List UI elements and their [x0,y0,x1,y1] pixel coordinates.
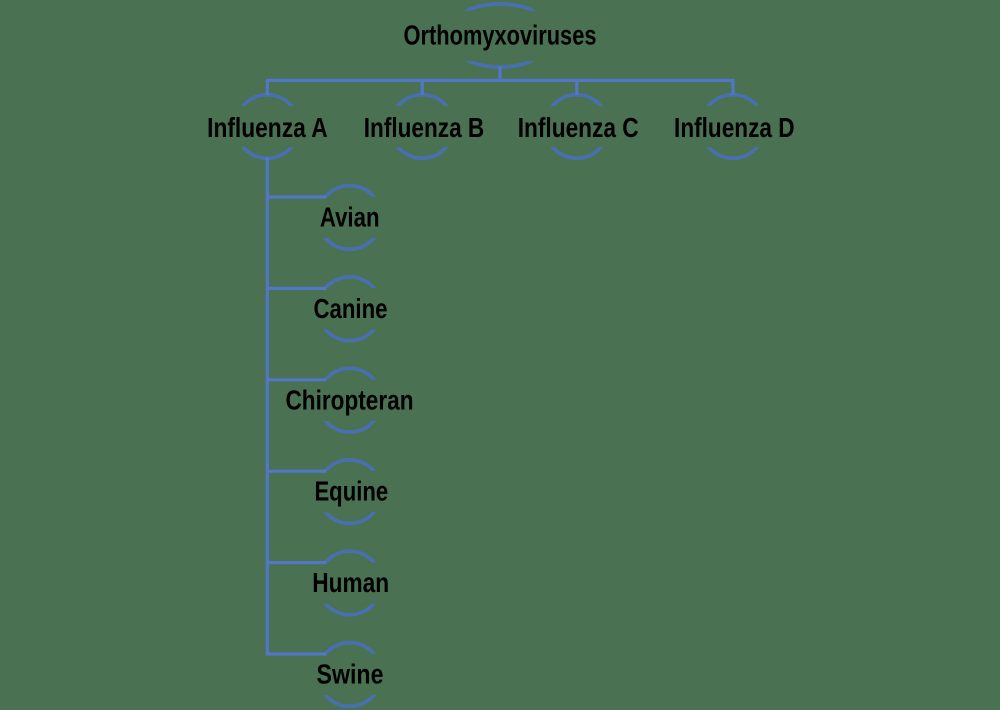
svg-text:Influenza B: Influenza B [364,112,485,143]
text band Swine [295,654,405,695]
wire stub from Orthomyxoviruses to rail [498,66,501,82]
node Influenza A circle [235,95,299,159]
text band Orthomyxoviruses [425,11,575,61]
node Orthomyxoviruses ellipse [447,4,553,67]
text band Influenza C [506,106,649,147]
node Influenza C circle [545,95,609,159]
node Influenza B circle [390,95,454,159]
node Canine circle [318,277,382,341]
wire branch to Equine [266,470,327,473]
wire stub to Influenza C [575,80,578,95]
svg-text:Avian: Avian [320,202,380,233]
svg-text:Chiropteran: Chiropteran [286,384,414,415]
text band Influenza B [351,106,494,147]
node Avian circle [318,186,382,250]
node Influenza D circle [701,95,765,159]
node Chiropteran circle [318,368,382,432]
svg-text:Human: Human [312,567,389,598]
text band Equine [295,471,405,512]
text band Human [295,562,405,603]
svg-text:Equine: Equine [314,476,388,507]
text band Avian [295,197,405,238]
wire stub to Influenza B [421,80,424,95]
svg-text:Swine: Swine [317,659,384,690]
wire branch to Chiropteran [266,378,327,381]
text band Canine [295,288,405,329]
svg-text:Influenza D: Influenza D [674,112,795,143]
wire branch to Avian [266,195,327,198]
text band Chiropteran [280,380,420,421]
text band Influenza D [662,106,805,147]
wire trunk from Influenza A down with elbow to Swine [267,158,326,654]
wire branch to Canine [266,287,327,290]
node Equine circle [318,460,382,524]
text band Influenza A [196,106,339,147]
svg-text:Orthomyxoviruses: Orthomyxoviruses [404,20,597,51]
node Human circle [318,551,382,615]
wire branch to Human [266,561,327,564]
wire rail with elbows to Influenza A and Influenza D [267,80,733,95]
svg-text:Canine: Canine [314,293,388,324]
svg-text:Influenza C: Influenza C [518,112,639,143]
svg-text:Influenza A: Influenza A [207,112,328,143]
node Swine circle [318,643,382,707]
